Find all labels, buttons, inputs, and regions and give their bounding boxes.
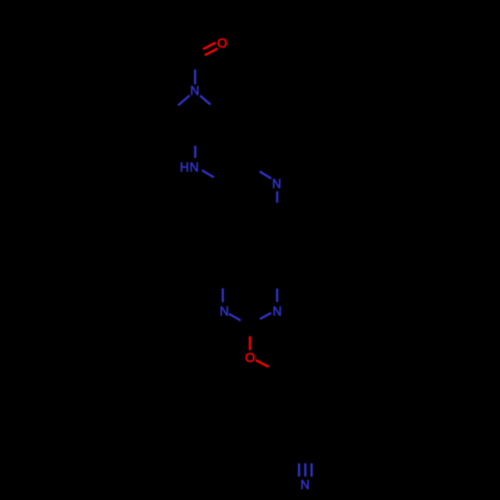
svg-text:N: N [272,177,281,191]
bond C=O acetyl line1 (red half) [203,43,216,50]
bond C2'-N1' pyridine (blue half) [260,172,272,179]
bond N1'-C6' pyridine (blue half) [276,191,278,203]
svg-text:O: O [217,36,227,51]
svg-text:N: N [273,304,282,318]
bond NH-C3' pyridine (blue half) [202,170,214,177]
bond C2''-O ether (red half) [249,336,251,350]
bond N1-C4 azetidine (blue half) [178,95,189,105]
bond C4''-N3'' pyrimidine (blue half) [276,289,278,303]
nitrile triple bond line1 (blue half) [298,463,300,476]
svg-text:N: N [300,478,309,492]
svg-text:N: N [220,304,229,318]
bond O-C1''' phenyl (red half) [256,360,269,367]
svg-text:O: O [245,350,255,365]
nitrile triple bond line3 (blue half) [311,463,313,476]
bond C6''-N1'' pyrimidine (blue half) [222,288,224,302]
bond N3''-C2'' pyrimidine (blue half) [260,313,271,319]
bond C=O acetyl line2 (red half) [205,49,218,56]
svg-text:HN: HN [180,161,200,175]
bond N1''-C2'' pyrimidine (blue half) [229,314,241,321]
bond C(=O)-N1 azetidine (blue half) [194,70,196,85]
svg-text:N: N [190,84,199,98]
bond N1-C2 azetidine (blue half) [200,96,211,105]
nitrile triple bond line2 (blue half) [304,463,306,476]
bond C3-NH (blue half) [194,146,196,158]
